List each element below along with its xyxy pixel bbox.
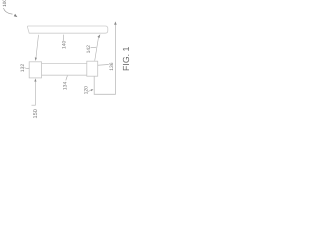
wire from box 130 down with arrowhead up	[34, 78, 36, 81]
svg-text:140: 140	[62, 40, 68, 49]
svg-text:120: 120	[84, 86, 90, 95]
svg-text:136: 136	[109, 62, 115, 71]
wire leader 132	[25, 67, 30, 70]
headrail bar	[27, 26, 107, 33]
svg-text:150: 150	[33, 109, 39, 118]
wire leader 140	[62, 35, 64, 41]
wire leader 142	[91, 46, 97, 49]
wire leader 120 with arrowhead	[88, 90, 92, 91]
svg-text:FIG. 1: FIG. 1	[121, 46, 131, 71]
tube 134 top line	[42, 62, 87, 64]
tube 134 bottom line	[42, 74, 87, 76]
wire leader 134	[66, 76, 68, 81]
wire leader 136	[98, 64, 109, 67]
box 136 right	[87, 61, 98, 76]
wire left cord with arrowhead down	[36, 35, 39, 58]
box 130 left	[29, 62, 41, 78]
svg-text:142: 142	[86, 45, 92, 54]
wire leader from 100	[4, 8, 13, 14]
svg-text:134: 134	[63, 82, 69, 91]
wire right cord with arrowhead up	[95, 37, 99, 61]
svg-text:100: 100	[2, 0, 7, 7]
wire L-path from box 136 down right and up	[94, 25, 115, 95]
